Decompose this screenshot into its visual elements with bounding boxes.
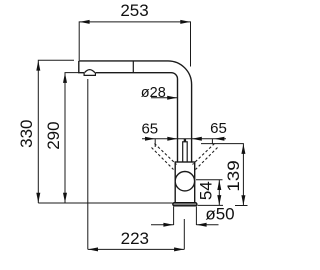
svg-text:54: 54 — [197, 181, 216, 200]
arrow 65R a — [192, 137, 202, 141]
dim 223 line — [88, 248, 185, 250]
arrow 54 top — [217, 180, 221, 190]
lever rod — [183, 142, 188, 163]
spout seam — [132, 61, 134, 72]
base flange — [173, 203, 197, 206]
dim 253 extension left — [79, 22, 190, 67]
svg-text:ø50: ø50 — [205, 205, 234, 224]
arrow 330 top — [36, 61, 40, 71]
arrow 65L a — [145, 137, 155, 141]
arrow 253 left — [80, 20, 90, 24]
dashed lever tilt left — [152, 144, 218, 170]
bottom right ext a — [198, 204, 224, 206]
dim 65 right / 139 line — [201, 144, 243, 206]
arrow dia28 — [167, 96, 177, 100]
deck line — [38, 202, 173, 204]
svg-text:330: 330 — [17, 120, 36, 148]
dia50 ext right — [195, 206, 197, 225]
bottom right ext b — [235, 205, 248, 207]
dim 330 line — [38, 60, 74, 203]
aerator dome — [85, 70, 95, 73]
arrow 139 top — [241, 144, 245, 154]
svg-text:290: 290 — [44, 121, 63, 149]
dim 54 ext top — [196, 179, 223, 181]
arrow 223 left — [88, 247, 98, 251]
svg-text:65: 65 — [210, 120, 227, 137]
arrow dia50 right — [197, 223, 207, 227]
arrow 139 bottom — [241, 195, 245, 205]
dim 65 left line — [142, 138, 226, 140]
arrow 65R b — [214, 137, 224, 141]
arrow 54 bottom — [217, 195, 221, 205]
arrow 223 right — [174, 247, 184, 251]
arrow 330 bottom — [36, 193, 40, 203]
svg-text:253: 253 — [120, 1, 148, 20]
dia50 leader left — [151, 224, 174, 226]
body block — [175, 162, 195, 203]
dim 54 line — [218, 180, 220, 206]
dim 223 ext right — [183, 219, 185, 249]
arrow 65L b — [167, 137, 177, 141]
aerator tray — [84, 73, 95, 76]
svg-text:139: 139 — [224, 160, 243, 192]
right extent tick — [211, 139, 213, 144]
svg-text:65: 65 — [141, 121, 158, 138]
left extent tick — [154, 139, 156, 147]
svg-text:223: 223 — [121, 229, 149, 248]
dim 223 ext left — [87, 79, 89, 249]
ball circle — [175, 172, 194, 191]
arrow 290 top — [63, 73, 67, 83]
dashed lever tilt right — [193, 144, 215, 165]
arrow 253 right — [180, 20, 190, 24]
arrow dia50 left — [163, 223, 173, 227]
dim 290 line — [65, 73, 79, 203]
svg-text:ø28: ø28 — [141, 85, 166, 101]
arrow 290 bottom — [63, 193, 67, 203]
faucet spout outline — [79, 61, 192, 162]
dia28 leader — [151, 97, 177, 99]
dia50 ext left — [173, 206, 175, 225]
dia50 leader right — [196, 224, 218, 226]
lever stub — [184, 139, 186, 143]
